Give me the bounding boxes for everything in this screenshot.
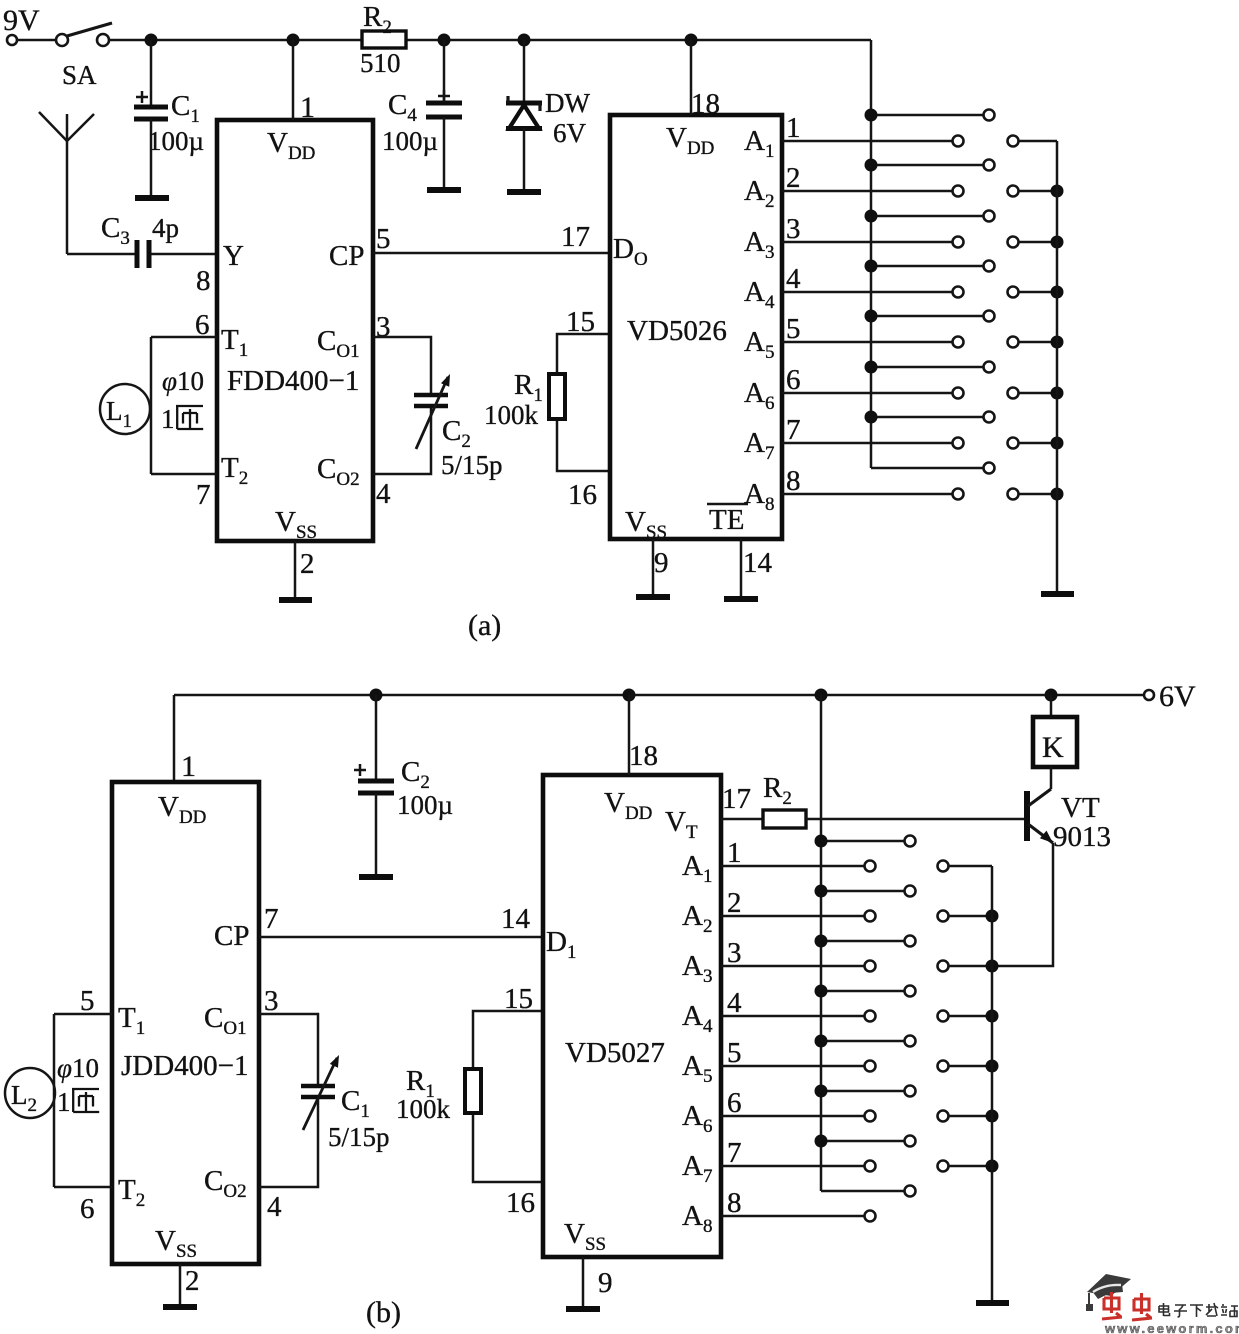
- svg-text:A8: A8: [744, 478, 774, 515]
- junction on VDD bus: [865, 411, 878, 424]
- junction on VDD bus (b): [815, 985, 828, 998]
- wire rail to pin 1 VDD (b): [173, 695, 176, 782]
- wire C3 to pin Y: [151, 253, 217, 256]
- junction on VDD bus (b): [815, 1135, 828, 1148]
- wire top supply rail of circuit (a): [151, 39, 362, 42]
- svg-text:2: 2: [727, 887, 742, 919]
- variable capacitor C1 5/15p (b): [301, 1055, 390, 1152]
- svg-text:A7: A7: [682, 1150, 712, 1187]
- junction on ground bus (b): [986, 1110, 999, 1123]
- wire CP pin 7 to D1 pin 14: [259, 936, 543, 939]
- relay K: [1033, 695, 1077, 789]
- eeworm.com watermark logo: dianzi xiazaizhan characters: [1159, 1303, 1238, 1317]
- svg-text:R2: R2: [763, 772, 792, 809]
- ground below pin 14: [724, 596, 758, 602]
- wire pin A8 to switch pole (b): [721, 1215, 864, 1218]
- switch S3b ground-side contact: [1008, 237, 1019, 248]
- switch S8b ground-side contact: [1008, 489, 1019, 500]
- ground below switch block (b): [976, 1300, 1009, 1306]
- svg-text:5/15p: 5/15p: [441, 450, 503, 480]
- svg-text:C2: C2: [401, 756, 430, 793]
- junction at relay K: [1045, 689, 1058, 702]
- node 9V supply terminal: [3, 4, 40, 45]
- wire pin 14 to ground: [740, 539, 743, 599]
- svg-text:5: 5: [786, 313, 801, 345]
- svg-text:8: 8: [786, 465, 801, 497]
- svg-text:VSS: VSS: [625, 506, 667, 543]
- svg-text:A8: A8: [682, 1200, 712, 1237]
- resistor R2 (b): [763, 772, 806, 828]
- zener diode DW 6V: [506, 40, 590, 192]
- junction on VDD bus: [865, 159, 878, 172]
- junction on VDD bus (b): [815, 935, 828, 948]
- wire pin A7 to switch pole (b): [721, 1165, 864, 1168]
- junction on ground bus (b): [986, 960, 999, 973]
- resistor R1 100k: [484, 334, 610, 471]
- svg-text:VSS: VSS: [564, 1218, 606, 1255]
- switch S6a upper contact row: [871, 366, 983, 369]
- wire pin A7 to switch pole: [782, 442, 952, 445]
- wire pin 18 VDD (b): [628, 695, 631, 775]
- svg-text:6: 6: [80, 1193, 95, 1225]
- junction at FDD400-1 pin 1: [287, 34, 300, 47]
- ground below C1: [135, 195, 169, 201]
- node 6V supply terminal: [1144, 680, 1196, 713]
- svg-text:2: 2: [185, 1265, 200, 1297]
- svg-text:6V: 6V: [553, 118, 587, 148]
- wire pin 2 VSS to ground: [294, 541, 297, 600]
- svg-text:15: 15: [566, 306, 595, 338]
- svg-text:3: 3: [727, 937, 742, 969]
- svg-text:K: K: [1042, 731, 1064, 764]
- switch S4a upper contact row: [871, 265, 983, 268]
- svg-text:1: 1: [181, 750, 196, 783]
- svg-text:4: 4: [376, 478, 391, 510]
- switch S7a upper contact row: [871, 416, 983, 419]
- inductor L1 loop wire: [150, 337, 153, 474]
- wire antenna to C3: [67, 253, 135, 256]
- resistor R1 100k (b): [396, 1011, 543, 1182]
- svg-text:2: 2: [300, 548, 315, 580]
- svg-text:7: 7: [196, 479, 211, 511]
- wire emitter to ground bus: [992, 843, 1053, 966]
- ground below pin 2: [279, 597, 312, 603]
- svg-text:100µ: 100µ: [148, 126, 204, 156]
- svg-text:VDD: VDD: [666, 122, 714, 159]
- switch S6a upper contact row (b): [821, 1090, 904, 1093]
- svg-text:φ10: φ10: [57, 1053, 99, 1083]
- svg-text:5/15p: 5/15p: [328, 1122, 390, 1152]
- svg-text:VSS: VSS: [275, 506, 317, 543]
- svg-text:7: 7: [264, 903, 279, 935]
- svg-text:8: 8: [196, 265, 211, 297]
- svg-text:A6: A6: [744, 377, 774, 414]
- wire pin A1 to switch pole (b): [721, 865, 864, 868]
- svg-text:16: 16: [568, 479, 597, 511]
- svg-text:100k: 100k: [396, 1094, 451, 1124]
- wire CP pin 5 to D0 pin 17: [373, 252, 610, 255]
- junction on ground bus: [1051, 236, 1064, 249]
- svg-text:18: 18: [629, 740, 658, 772]
- svg-text:D1: D1: [546, 926, 576, 963]
- svg-text:1: 1: [161, 404, 175, 434]
- wire pin A2 to switch pole: [782, 190, 952, 193]
- svg-text:www.eeworm.com: www.eeworm.com: [1104, 1321, 1239, 1334]
- ground below pin 2 (b): [163, 1304, 197, 1310]
- svg-text:6: 6: [786, 364, 801, 396]
- ground below pin 9 (b): [566, 1306, 600, 1312]
- wire pin A2 to switch pole (b): [721, 915, 864, 918]
- svg-text:3: 3: [786, 213, 801, 245]
- junction on ground bus (b): [986, 1010, 999, 1023]
- svg-text:9013: 9013: [1053, 821, 1111, 853]
- svg-text:T2: T2: [221, 452, 248, 489]
- wire T2 pin 7: [151, 473, 217, 476]
- wire VDD bus of address switch block (a): [870, 40, 873, 468]
- svg-text:5: 5: [80, 985, 95, 1017]
- wire pin 9 to ground (b): [582, 1257, 585, 1309]
- value label phi10 1zha for L1: [161, 366, 204, 434]
- wire pin A8 to switch pole: [782, 493, 952, 496]
- svg-text:100k: 100k: [484, 400, 539, 430]
- svg-text:14: 14: [501, 903, 531, 935]
- switch S5b ground-side contact: [1008, 337, 1019, 348]
- inductor L1: [100, 384, 150, 434]
- ground below C2 (b): [359, 874, 393, 880]
- svg-text:JDD400−1: JDD400−1: [121, 1050, 249, 1082]
- wire CO1 pin 3 to C1 (b): [259, 1014, 318, 1086]
- svg-text:100µ: 100µ: [397, 790, 453, 820]
- svg-text:C4: C4: [388, 89, 417, 126]
- IC U2 VD5026 body: [610, 115, 782, 539]
- svg-text:A4: A4: [682, 1000, 713, 1037]
- pin TE label / pin 14: [707, 504, 773, 579]
- wire pin A1 to switch pole: [782, 140, 952, 143]
- junction on VDD bus: [865, 210, 878, 223]
- switch S5a upper contact row (b): [821, 1040, 904, 1043]
- wire ground bus of address switch block (b): [991, 866, 994, 1303]
- svg-text:CP: CP: [329, 240, 364, 272]
- svg-text:(b): (b): [366, 1296, 401, 1329]
- svg-text:5: 5: [727, 1037, 742, 1069]
- junction on ground bus (b): [986, 1060, 999, 1073]
- resistor R2 510: [360, 1, 406, 78]
- ground below DW: [507, 189, 541, 195]
- svg-text:TE: TE: [709, 504, 744, 536]
- svg-text:T1: T1: [118, 1002, 145, 1039]
- wire pin A6 to switch pole: [782, 392, 952, 395]
- junction on VDD bus (b): [815, 835, 828, 848]
- svg-text:4: 4: [267, 1191, 282, 1223]
- junction on ground bus (b): [986, 1160, 999, 1173]
- junction on VDD bus (b): [815, 1035, 828, 1048]
- svg-text:A3: A3: [744, 226, 774, 263]
- svg-text:L1: L1: [106, 396, 132, 432]
- wire T2 pin 6: [54, 1186, 112, 1189]
- capacitor C2 100u (b): [354, 695, 453, 877]
- svg-text:1: 1: [786, 112, 801, 144]
- wire pin A4 to switch pole (b): [721, 1015, 864, 1018]
- antenna: [39, 112, 94, 254]
- wire VDD bus of address switch block (b): [820, 695, 823, 1191]
- switch S7a upper contact row (b): [821, 1140, 904, 1143]
- svg-text:SA: SA: [62, 60, 97, 90]
- svg-text:VSS: VSS: [155, 1225, 197, 1262]
- switch S3a upper contact row: [871, 215, 983, 218]
- switch S6b ground-side contact: [1008, 388, 1019, 399]
- switch SA: [56, 23, 112, 90]
- switch S7b ground-side contact: [1008, 438, 1019, 449]
- wire pin 18 VDD: [690, 40, 693, 115]
- value label phi10 1zha for L2: [57, 1053, 99, 1117]
- svg-text:18: 18: [691, 88, 720, 120]
- switch S4b ground-side contact (b): [938, 1011, 949, 1022]
- svg-text:A5: A5: [744, 326, 774, 363]
- junction on VDD bus: [865, 310, 878, 323]
- ground below pin 9: [636, 594, 670, 600]
- svg-text:VDD: VDD: [158, 791, 206, 828]
- svg-text:C2: C2: [442, 415, 471, 452]
- wire pin A5 to switch pole (b): [721, 1065, 864, 1068]
- svg-text:3: 3: [264, 985, 279, 1017]
- switch S1b ground-side contact: [1008, 136, 1019, 147]
- svg-text:A2: A2: [744, 175, 774, 212]
- svg-text:T2: T2: [118, 1174, 145, 1211]
- wire pin A3 to switch pole (b): [721, 965, 864, 968]
- switch S2b ground-side contact (b): [938, 911, 949, 922]
- svg-text:R2: R2: [363, 1, 392, 38]
- svg-text:VD5026: VD5026: [627, 315, 727, 347]
- switch S1a upper contact row: [871, 114, 983, 117]
- ground below switch block (a): [1041, 591, 1074, 597]
- junction on ground bus (b): [986, 910, 999, 923]
- svg-text:A2: A2: [682, 900, 712, 937]
- junction on ground bus: [1051, 336, 1064, 349]
- junction on VDD bus (b): [815, 885, 828, 898]
- svg-text:φ10: φ10: [162, 366, 204, 396]
- svg-text:CO2: CO2: [317, 453, 360, 490]
- svg-text:100µ: 100µ: [382, 126, 438, 156]
- svg-text:VT: VT: [1061, 792, 1100, 824]
- junction on VDD bus: [865, 109, 878, 122]
- inductor L2 loop wire: [53, 1014, 56, 1187]
- svg-text:VT: VT: [665, 806, 698, 843]
- switch S5a upper contact row: [871, 315, 983, 318]
- junction at VD5027 pin 18: [623, 689, 636, 702]
- svg-text:8: 8: [727, 1187, 742, 1219]
- svg-text:6: 6: [727, 1087, 742, 1119]
- wire pin 9 to ground: [652, 539, 655, 597]
- switch S1b ground-side contact (b): [938, 861, 949, 872]
- junction on ground bus: [1051, 286, 1064, 299]
- svg-text:VD5027: VD5027: [565, 1037, 665, 1069]
- svg-text:VDD: VDD: [267, 127, 315, 164]
- junction at C4: [438, 34, 451, 47]
- svg-text:5: 5: [376, 223, 391, 255]
- svg-text:7: 7: [786, 414, 801, 446]
- switch S3b ground-side contact (b): [938, 961, 949, 972]
- switch S6b ground-side contact (b): [938, 1111, 949, 1122]
- wire pin A5 to switch pole: [782, 341, 952, 344]
- svg-text:4: 4: [786, 263, 801, 295]
- svg-text:9V: 9V: [3, 4, 40, 37]
- eeworm.com watermark logo: red chongchong characters: [1102, 1292, 1152, 1320]
- svg-text:DW: DW: [545, 88, 590, 118]
- svg-text:17: 17: [561, 221, 590, 253]
- wire T1 pin 6: [151, 336, 217, 339]
- svg-text:A1: A1: [744, 125, 774, 162]
- switch S2a upper contact row: [871, 164, 983, 167]
- svg-text:A7: A7: [744, 427, 774, 464]
- wire SA to C1 junction: [109, 39, 151, 42]
- svg-text:A6: A6: [682, 1100, 712, 1137]
- svg-text:7: 7: [727, 1137, 742, 1169]
- svg-text:DO: DO: [613, 233, 648, 270]
- svg-text:16: 16: [506, 1187, 535, 1219]
- junction on ground bus: [1051, 185, 1064, 198]
- svg-text:1: 1: [57, 1087, 71, 1117]
- wire pin A6 to switch pole (b): [721, 1115, 864, 1118]
- svg-text:T1: T1: [221, 324, 248, 361]
- switch S5b ground-side contact (b): [938, 1061, 949, 1072]
- capacitor C4 100u: [382, 40, 462, 190]
- switch S4b ground-side contact: [1008, 287, 1019, 298]
- wire T1 pin 5: [54, 1013, 112, 1016]
- wire pin A3 to switch pole: [782, 241, 952, 244]
- junction on ground bus: [1051, 387, 1064, 400]
- switch S2a upper contact row (b): [821, 890, 904, 893]
- junction on VDD bus: [865, 260, 878, 273]
- svg-text:510: 510: [360, 48, 401, 78]
- svg-text:FDD400−1: FDD400−1: [227, 365, 359, 397]
- svg-text:A3: A3: [682, 950, 712, 987]
- wire VT pin 17 to R2: [721, 818, 763, 821]
- wire pin A4 to switch pole: [782, 291, 952, 294]
- capacitor C1 100u: [134, 40, 204, 198]
- eeworm.com watermark logo: graduation cap: [1086, 1274, 1131, 1311]
- variable capacitor C2 5/15p: [414, 374, 503, 480]
- IC U3 JDD400-1 body: [112, 782, 259, 1264]
- svg-text:C1: C1: [341, 1085, 370, 1122]
- wire pin 1 VDD: [292, 40, 295, 120]
- svg-text:14: 14: [743, 547, 773, 579]
- junction at switch bus (b): [815, 689, 828, 702]
- svg-text:VDD: VDD: [604, 787, 652, 824]
- svg-text:CP: CP: [214, 920, 249, 952]
- switch S2b ground-side contact: [1008, 186, 1019, 197]
- svg-text:9: 9: [654, 547, 669, 579]
- svg-text:C1: C1: [171, 90, 200, 127]
- junction at DW: [518, 34, 531, 47]
- svg-text:(a): (a): [468, 609, 501, 642]
- IC U1 FDD400-1 body: [217, 120, 373, 541]
- wire R2 to transistor base: [806, 818, 1024, 821]
- svg-text:15: 15: [504, 983, 533, 1015]
- junction at C1: [145, 34, 158, 47]
- wire CO2 pin 4 to C2: [373, 406, 431, 474]
- svg-text:C3: C3: [101, 212, 130, 249]
- wire top supply rail of circuit (b): [174, 694, 1144, 697]
- IC U4 VD5027 body: [543, 775, 721, 1257]
- svg-text:CO2: CO2: [204, 1165, 247, 1202]
- wire pin 2 to ground (b): [179, 1264, 182, 1307]
- wire 9V to switch SA: [17, 39, 56, 42]
- junction on ground bus: [1051, 488, 1064, 501]
- svg-text:Y: Y: [223, 240, 244, 272]
- svg-text:1: 1: [727, 837, 742, 869]
- svg-text:A4: A4: [744, 276, 775, 313]
- svg-text:CO1: CO1: [317, 325, 360, 362]
- svg-text:A5: A5: [682, 1050, 712, 1087]
- svg-text:6V: 6V: [1159, 680, 1196, 713]
- wire CO2 pin 4 to C1 (b): [259, 1097, 318, 1187]
- junction on ground bus: [1051, 437, 1064, 450]
- svg-text:1: 1: [300, 91, 315, 124]
- svg-text:2: 2: [786, 162, 801, 194]
- wire ground bus of address switch block (a): [1056, 141, 1059, 594]
- switch S8a upper contact row (b): [821, 1190, 904, 1193]
- wire CO1 pin 3 to C2: [373, 337, 431, 395]
- svg-text:4p: 4p: [152, 213, 179, 243]
- junction on VDD bus (b): [815, 1085, 828, 1098]
- switch S3a upper contact row (b): [821, 940, 904, 943]
- svg-text:CO1: CO1: [204, 1002, 247, 1039]
- junction on VDD bus: [865, 361, 878, 374]
- switch S1a upper contact row (b): [821, 840, 904, 843]
- switch S7b ground-side contact (b): [938, 1161, 949, 1172]
- svg-text:4: 4: [727, 987, 742, 1019]
- svg-text:A1: A1: [682, 850, 712, 887]
- inductor L2: [5, 1068, 55, 1118]
- junction at VD5026 pin 18: [685, 34, 698, 47]
- svg-text:9: 9: [598, 1267, 613, 1299]
- junction at C2 (b): [370, 689, 383, 702]
- ground below C4: [427, 187, 461, 193]
- svg-text:17: 17: [722, 783, 751, 815]
- capacitor C3 4p: [101, 212, 179, 268]
- transistor VT 9013: [1027, 789, 1111, 853]
- switch S4a upper contact row (b): [821, 990, 904, 993]
- svg-text:L2: L2: [11, 1080, 37, 1116]
- switch S8a upper contact row: [871, 467, 983, 470]
